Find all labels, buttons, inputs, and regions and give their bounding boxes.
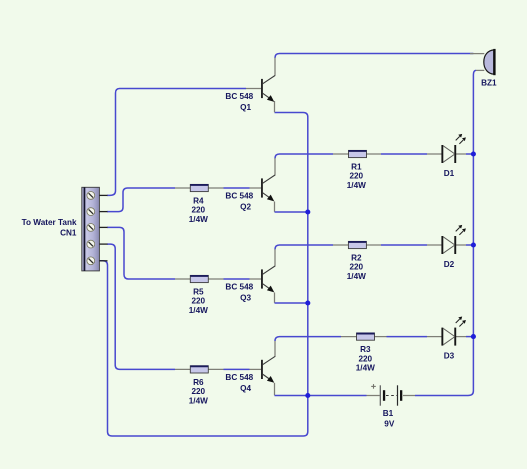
resistor R5	[190, 275, 208, 282]
wire CN1 pin1 to Q1 base	[107, 89, 262, 196]
svg-text:B1: B1	[383, 409, 394, 418]
svg-text:220: 220	[349, 263, 363, 272]
label D3	[444, 352, 455, 361]
battery + mark	[371, 384, 376, 389]
wire CN1 pin3 to R5	[107, 227, 191, 279]
label Q2	[225, 191, 253, 211]
svg-text:Q4: Q4	[240, 384, 251, 393]
svg-text:R3: R3	[360, 345, 371, 354]
wire R2 to D2	[366, 244, 441, 246]
wire Q2 collector to R1	[275, 154, 349, 176]
svg-text:BC 548: BC 548	[225, 191, 253, 200]
svg-text:1/4W: 1/4W	[347, 181, 366, 190]
transistor Q3	[261, 266, 275, 292]
node D1 cathode junction	[471, 151, 476, 156]
transistor Q4	[261, 356, 275, 382]
label BZ1	[481, 78, 497, 87]
wire Q3 collector to R2	[275, 245, 348, 267]
label R3	[356, 345, 375, 372]
wire Q4 emitter to node	[275, 383, 308, 396]
svg-text:D2: D2	[444, 260, 455, 269]
label D2	[444, 260, 455, 269]
label D1	[444, 169, 455, 178]
label R2	[347, 254, 366, 281]
wire D1 to right rail	[456, 153, 473, 155]
svg-text:1/4W: 1/4W	[189, 396, 208, 405]
svg-text:1/4W: 1/4W	[347, 272, 366, 281]
label B1	[383, 409, 395, 428]
svg-text:220: 220	[349, 172, 363, 181]
resistor R4	[190, 184, 208, 191]
svg-text:R5: R5	[193, 288, 204, 297]
wire R1 to D1	[366, 153, 441, 155]
svg-text:220: 220	[191, 206, 205, 215]
svg-text:BC 548: BC 548	[225, 282, 253, 291]
wire Q3 emitter to node	[275, 293, 308, 304]
label R5	[189, 288, 208, 315]
wire node to B1 +	[308, 395, 380, 397]
svg-text:1/4W: 1/4W	[189, 306, 208, 315]
wire D3 to right rail	[456, 336, 473, 338]
resistor R3	[357, 333, 375, 340]
LED D1	[441, 134, 466, 163]
svg-text:220: 220	[191, 387, 205, 396]
wire R5 to Q3 base	[207, 278, 262, 280]
svg-text:1/4W: 1/4W	[356, 364, 375, 373]
label R4	[189, 197, 208, 224]
node battery + junction	[305, 393, 310, 398]
node D3 cathode junction	[471, 334, 476, 339]
label Q3	[225, 282, 253, 302]
battery B1	[380, 385, 402, 405]
resistor R2	[348, 241, 366, 248]
svg-text:BZ1: BZ1	[481, 78, 497, 87]
LED D2	[441, 225, 466, 254]
svg-text:220: 220	[191, 297, 205, 306]
svg-text:Q2: Q2	[240, 202, 251, 211]
svg-text:CN1: CN1	[60, 229, 77, 238]
node Q2 emitter junction	[305, 209, 310, 214]
svg-text:BC 548: BC 548	[225, 92, 253, 101]
label Q1	[225, 92, 253, 112]
resistor R1	[349, 150, 367, 157]
svg-text:R4: R4	[193, 197, 204, 206]
svg-text:Q1: Q1	[240, 103, 251, 112]
node D2 cathode junction	[471, 242, 476, 247]
wire emitter bus / pin5 return	[100, 113, 308, 437]
buzzer BZ1	[484, 49, 496, 75]
wire D2 to right rail	[456, 244, 473, 246]
connector CN1	[82, 187, 108, 271]
label R6	[189, 378, 208, 405]
label CN1	[22, 218, 77, 238]
node Q3 emitter junction	[305, 300, 310, 305]
svg-text:R6: R6	[193, 378, 204, 387]
svg-text:Q3: Q3	[240, 293, 251, 302]
wire Q1 emitter pin	[274, 101, 276, 112]
svg-text:To Water Tank: To Water Tank	[22, 218, 77, 227]
svg-text:220: 220	[358, 354, 372, 363]
svg-text:BC 548: BC 548	[225, 373, 253, 382]
transistor Q2	[261, 175, 275, 201]
LED D3	[441, 317, 466, 346]
svg-text:9V: 9V	[384, 420, 395, 429]
wire R6 to Q4 base	[207, 368, 262, 370]
wire CN1 pin2 to R4	[107, 188, 191, 212]
wire CN1 pin4 to R6	[107, 244, 191, 369]
svg-text:1/4W: 1/4W	[189, 215, 208, 224]
transistor Q1	[261, 76, 275, 102]
label R1	[347, 163, 366, 190]
label Q4	[225, 373, 253, 393]
svg-text:R1: R1	[351, 163, 362, 172]
svg-text:D3: D3	[444, 352, 455, 361]
wire R4 to Q2 base	[207, 187, 262, 189]
wire R3 to D3	[373, 336, 441, 338]
wire Q2 emitter to node	[275, 202, 308, 213]
wire Q1 collector to BZ1	[275, 54, 484, 76]
svg-text:R2: R2	[351, 254, 362, 263]
wire Q4 collector to R3	[275, 337, 358, 357]
resistor R6	[190, 366, 208, 373]
svg-text:D1: D1	[444, 169, 455, 178]
wire right rail (BZ1 to B1 -)	[403, 70, 484, 395]
